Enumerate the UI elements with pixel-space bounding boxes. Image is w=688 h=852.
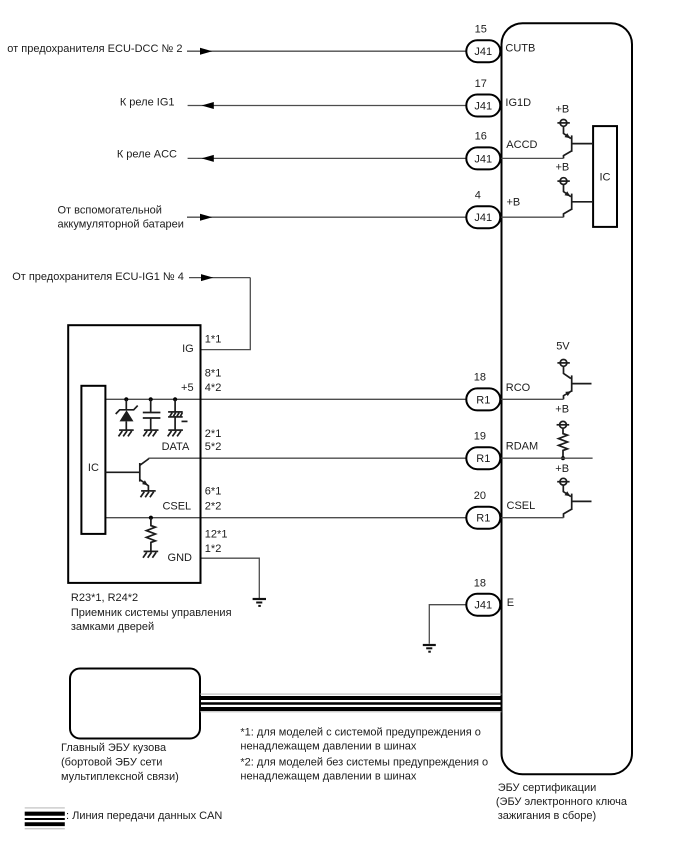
wire DATA / RDAM rail [148, 457, 466, 459]
svg-text:*1: для моделей с системой пре: *1: для моделей с системой предупреждени… [240, 726, 481, 738]
wire CSEL rail [105, 517, 466, 519]
ground C2 (hatch) [168, 430, 183, 436]
svg-text:17: 17 [475, 78, 487, 90]
svg-text:От вспомогательной: От вспомогательной [58, 204, 162, 216]
ground R-CSEL (hatch) [143, 551, 158, 557]
svg-text:1*1: 1*1 [205, 333, 222, 345]
junction node +5 zener [124, 397, 128, 401]
connector J41 pin 17 IG1D [466, 78, 500, 117]
svg-text:IC: IC [600, 172, 611, 184]
junction node +5 ecap [173, 397, 177, 401]
capacitor C1 [143, 399, 161, 430]
svg-text:(ЭБУ электронного ключа: (ЭБУ электронного ключа [496, 796, 628, 808]
svg-text:J41: J41 [474, 100, 492, 112]
transistor Q4 CSEL (PNP) [500, 478, 591, 517]
body ECU box [70, 669, 200, 739]
svg-text:DATA: DATA [162, 441, 190, 453]
svg-text:GND: GND [168, 552, 193, 564]
svg-text:(бортовой ЭБУ сети: (бортовой ЭБУ сети [61, 757, 162, 769]
svg-text:2*2: 2*2 [205, 500, 222, 512]
wire E to ground [429, 605, 466, 644]
svg-text:+B: +B [555, 403, 569, 415]
receiver box R23/R24 [68, 325, 200, 583]
ground C1 (hatch) [143, 430, 158, 436]
svg-text:12*1: 12*1 [205, 528, 228, 540]
svg-text:от предохранителя ECU-DCC № 2: от предохранителя ECU-DCC № 2 [7, 43, 182, 55]
svg-text:ненадлежащем давлении в шинах: ненадлежащем давлении в шинах [240, 740, 417, 752]
connector J41 pin 15 CUTB [466, 24, 500, 63]
wire ACCD to relay ACC [188, 155, 467, 162]
svg-text:зажигания в сборе): зажигания в сборе) [498, 810, 597, 822]
svg-text:5V: 5V [556, 341, 570, 353]
transistor Q5 DATA (NPN) [105, 458, 148, 491]
svg-text:К реле IG1: К реле IG1 [120, 96, 175, 108]
IC box right U-ICR [593, 126, 617, 227]
svg-text:Приемник системы управления: Приемник системы управления [71, 607, 232, 619]
svg-text:IC: IC [88, 462, 99, 474]
electrolytic capacitor C2 [168, 399, 187, 430]
transistor Q1 ACCD (PNP) [500, 120, 593, 159]
wire IG from fuse ECU-IG1 [189, 274, 250, 350]
junction node CSEL [149, 516, 153, 520]
svg-text:R1: R1 [476, 513, 490, 525]
legend CAN symbol [25, 808, 65, 829]
connector J41 pin 16 ACCD [466, 131, 500, 170]
wire CUTB from fuse ECU-DCC [187, 48, 466, 55]
certification ECU outline U-cert [502, 23, 633, 774]
svg-text:16: 16 [475, 131, 487, 143]
svg-text:+B: +B [555, 463, 569, 475]
svg-text:CSEL: CSEL [507, 500, 536, 512]
svg-text:IG1D: IG1D [505, 97, 531, 109]
svg-text:J41: J41 [474, 212, 492, 224]
svg-text:+B: +B [507, 197, 521, 209]
svg-text:RDAM: RDAM [506, 441, 538, 453]
svg-text:CSEL: CSEL [162, 500, 191, 512]
wire IG1D to relay IG1 [188, 102, 467, 109]
svg-text:От предохранителя ECU-IG1 № 4: От предохранителя ECU-IG1 № 4 [12, 271, 184, 283]
svg-text:IG: IG [182, 343, 194, 355]
svg-text:1*2: 1*2 [205, 543, 222, 555]
svg-text:К реле ACC: К реле ACC [117, 149, 177, 161]
svg-text:CUTB: CUTB [505, 43, 535, 55]
connector R1 pin 18 RCO [466, 371, 500, 410]
svg-text:18: 18 [474, 371, 486, 383]
ground chassis GND (3-bar) [253, 599, 266, 606]
svg-text:J41: J41 [474, 46, 492, 58]
svg-text:J41: J41 [474, 600, 492, 612]
svg-text:20: 20 [474, 490, 486, 502]
ground Q5 emitter (hatch) [141, 491, 156, 497]
resistor R-RDAM pull-up [500, 421, 592, 460]
svg-text:ненадлежащем давлении в шинах: ненадлежащем давлении в шинах [240, 770, 417, 782]
svg-text:+5: +5 [181, 382, 194, 394]
svg-text:R1: R1 [476, 394, 490, 406]
svg-text:Главный ЭБУ кузова: Главный ЭБУ кузова [61, 742, 167, 754]
svg-text:6*1: 6*1 [205, 486, 222, 498]
transistor Q2 +B (PNP) [500, 178, 593, 217]
svg-text:19: 19 [474, 431, 486, 443]
connector R1 pin 19 RDAM [466, 431, 500, 470]
zener diode D1 [116, 399, 138, 430]
svg-text:ACCD: ACCD [506, 139, 537, 151]
svg-text:5*2: 5*2 [205, 441, 222, 453]
svg-text:18: 18 [474, 578, 486, 590]
svg-text:R1: R1 [476, 453, 490, 465]
svg-text:мультиплексной связи): мультиплексной связи) [61, 771, 179, 783]
svg-text:J41: J41 [474, 153, 492, 165]
transistor Q3 RCO (PNP) [500, 360, 591, 400]
svg-text:2*1: 2*1 [205, 428, 222, 440]
wire +5 / RCO rail [105, 398, 466, 400]
svg-text:R23*1, R24*2: R23*1, R24*2 [71, 592, 138, 604]
resistor R-CSEL pull-down [146, 518, 155, 552]
wire GND to chassis ground [201, 558, 260, 598]
svg-text:RCO: RCO [506, 382, 531, 394]
connector J41 pin 4 +B [466, 190, 500, 229]
wire +B from auxiliary battery [187, 214, 466, 221]
svg-text:8*1: 8*1 [205, 368, 222, 380]
IC box inside receiver U-ICL [81, 386, 105, 534]
svg-text:аккумуляторной батареи: аккумуляторной батареи [58, 219, 184, 231]
connector J41 pin 18 E [466, 578, 500, 616]
junction node +5 cap [149, 397, 153, 401]
svg-text:E: E [507, 597, 514, 609]
ground E (3-bar) [423, 645, 436, 652]
svg-text:4: 4 [475, 190, 481, 202]
CAN bus lines [200, 694, 502, 712]
svg-text:*2: для моделей без системы пр: *2: для моделей без системы предупрежден… [240, 757, 488, 769]
svg-text:+B: +B [556, 103, 570, 115]
connector R1 pin 20 CSEL [466, 490, 500, 529]
svg-text:ЭБУ сертификации: ЭБУ сертификации [498, 782, 597, 794]
ground zener (hatch) [119, 430, 134, 436]
svg-text:4*2: 4*2 [205, 382, 222, 394]
svg-text:замками дверей: замками дверей [71, 621, 154, 633]
svg-text:+B: +B [556, 162, 570, 174]
svg-text:: Линия передачи данных CAN: : Линия передачи данных CAN [66, 810, 222, 822]
svg-text:15: 15 [475, 24, 487, 36]
